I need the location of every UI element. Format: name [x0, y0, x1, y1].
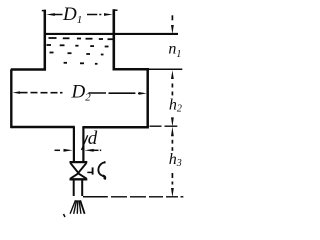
- dimension d arrows: [55, 149, 102, 152]
- h2 bottom arrow (down to tank bottom): [171, 117, 174, 126]
- label zeta: [98, 161, 105, 179]
- speck below spray: [64, 214, 66, 217]
- valve top flange: [70, 161, 88, 163]
- liquid hatching row 4: [64, 63, 98, 64]
- outlet level dashed extension: [111, 196, 183, 198]
- right shoulder: [113, 68, 150, 71]
- dimension D1 line: [46, 13, 112, 16]
- valve bottom flange: [70, 178, 88, 180]
- left shoulder: [11, 68, 46, 71]
- liquid hatching row 3: [50, 53, 104, 55]
- right shoulder extension line: [149, 68, 182, 70]
- outflow spray: [70, 200, 85, 214]
- valve upper triangle: [70, 163, 86, 173]
- pipe lower section left wall: [73, 180, 75, 196]
- zeta leader line: [87, 171, 92, 173]
- lower tank left wall: [10, 69, 12, 128]
- liquid hatching row 1: [49, 38, 113, 39]
- outlet level line solid part: [83, 196, 108, 198]
- h3 top arrow (up to tank bottom): [171, 127, 174, 151]
- pipe upper section right wall: [82, 127, 84, 161]
- upper tank left wall: [42, 10, 46, 71]
- oblique tick under d: [82, 135, 88, 150]
- tank bottom right part: [82, 126, 148, 129]
- valve lower triangle: [70, 173, 86, 178]
- lower tank right wall: [146, 69, 149, 127]
- h2 top arrow (up to shoulder): [171, 70, 174, 95]
- tank bottom left part: [11, 126, 75, 129]
- tank bottom dashed extension: [150, 125, 178, 127]
- right dimension column: top extension dash: [171, 15, 173, 20]
- upper tank right wall: [113, 9, 118, 70]
- water surface line: [46, 33, 178, 35]
- arrow down to water surface: [171, 25, 174, 34]
- dimension D2 line: [13, 91, 147, 95]
- pipe lower section right wall: [81, 180, 83, 196]
- liquid hatching row 2: [47, 45, 109, 47]
- pipe upper section left wall: [73, 127, 75, 161]
- svg-text:d: d: [88, 128, 98, 149]
- zeta leader end tick: [92, 167, 94, 174]
- h3 bottom arrow (down to outlet level): [171, 173, 174, 197]
